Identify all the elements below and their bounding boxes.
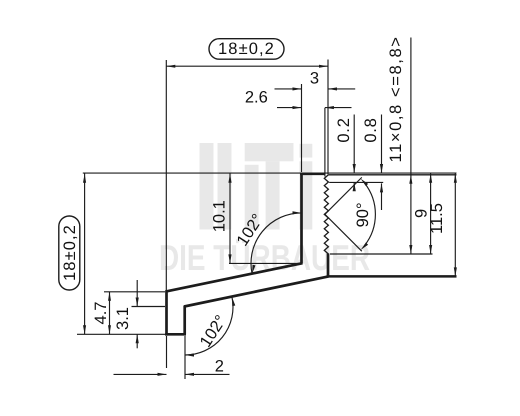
profile foot right edge (183, 306, 186, 335)
dimension line 18±0,2 top (166, 65, 328, 67)
arrow 102° lower end up (232, 297, 235, 306)
extension line foot left below (166, 336, 168, 368)
svg-text:0.2: 0.2 (335, 117, 353, 142)
arrow 18 top left (166, 65, 175, 68)
profile bottom edge (327, 275, 457, 278)
label 2 (215, 358, 224, 376)
arrow 11.5 bottom (454, 267, 457, 276)
arrow 11×0,8 top (409, 175, 412, 184)
svg-text:4.7: 4.7 (92, 302, 110, 325)
dimension line 18±0,2 left (84, 173, 86, 334)
svg-text:11×0,8 <=8,8>: 11×0,8 <=8,8> (387, 36, 405, 163)
arc 90° (365, 183, 376, 245)
dimension line 0.2 upper (353, 115, 355, 173)
svg-text:10.1: 10.1 (211, 200, 229, 232)
profile lower diagonal edge (184, 276, 328, 306)
arrow 2.6 right (325, 106, 334, 109)
arrow 18 top right (319, 65, 328, 68)
svg-text:0.8: 0.8 (362, 117, 380, 142)
extension line serration valley vertical (324, 108, 326, 177)
label 3.1 (114, 307, 132, 330)
svg-text:3: 3 (310, 70, 319, 88)
label 102° lower (197, 312, 231, 350)
svg-text:18±0,2: 18±0,2 (61, 224, 79, 281)
profile step edge below serration (327, 254, 330, 278)
dimension line 3.1 upper (136, 280, 138, 307)
arrow 0.2 up (353, 182, 356, 191)
svg-text:2: 2 (215, 358, 224, 376)
capsule frame 18±0,2 left (59, 216, 80, 290)
dimension line 2 left part (114, 373, 167, 375)
label 11×0,8 (=8,8) (387, 36, 405, 163)
arc 102° upper (251, 213, 302, 274)
label 102° upper (233, 211, 267, 249)
dimension line 9 (430, 173, 432, 254)
arrow 18 left top (83, 174, 86, 183)
profile serrated edge 11 teeth (324, 175, 328, 254)
extension line serration bottom (330, 253, 433, 255)
arrow 11.5 top (454, 174, 457, 183)
watermark logo (200, 143, 313, 230)
watermark text DIE TUERBAUER (159, 237, 370, 278)
label 10.1 (211, 200, 229, 232)
label 18±0,2 top (218, 40, 275, 58)
label 90° (354, 202, 372, 227)
arrow 18 left bottom (83, 325, 86, 334)
arrow 3.1 down (136, 298, 139, 307)
extension line top surface (83, 172, 457, 174)
dimension line 3.1 lower (136, 334, 138, 348)
svg-text:2.6: 2.6 (245, 88, 268, 106)
arrow 0.8 down (380, 164, 383, 173)
arrow 90° upper (361, 179, 369, 187)
arrow 3 left (293, 87, 302, 90)
extension line 4.7 top (104, 291, 165, 293)
extension line serration tip vertical (327, 60, 329, 175)
arrow 90° lower (361, 243, 369, 251)
arrow 4.7 top (108, 292, 111, 301)
label 9 (413, 209, 431, 218)
arrow 4.7 bottom (108, 325, 111, 334)
profile upper diagonal edge (166, 263, 303, 291)
arrow 0.8 up (380, 183, 383, 192)
angle leg 90° lower (325, 214, 362, 251)
dimension line 2.6 left part (277, 107, 302, 109)
profile foot bottom edge (165, 333, 186, 336)
extension line 10.1 bottom (229, 262, 300, 264)
dimension line 4.7 (109, 292, 111, 335)
label 3 (310, 70, 319, 88)
dimension line 11.5 (454, 173, 456, 276)
svg-text:11.5: 11.5 (428, 203, 446, 234)
extension line foot left vertical (165, 60, 167, 292)
label 18±0,2 left (61, 224, 79, 281)
profile lip left edge (300, 173, 303, 264)
arrow 10.1 bottom (228, 254, 231, 263)
profile lip top edge (300, 172, 325, 175)
svg-text:3.1: 3.1 (114, 307, 132, 330)
dimension line 0.2 lower stub (353, 182, 355, 190)
arrow 9 top (429, 174, 432, 183)
label 4.7 (92, 302, 110, 325)
arrow 11×0,8 bottom (409, 245, 412, 254)
profile foot left edge (165, 291, 168, 336)
dimension line 3 right part (328, 88, 355, 90)
arrow 10.1 top (228, 174, 231, 183)
arrow 102° lower end left (185, 353, 194, 356)
arrow 2 right (185, 373, 194, 376)
dimension line 0.8 upper (381, 115, 383, 173)
extension line foot bottom left (77, 333, 171, 335)
profile right top surface (328, 174, 456, 176)
extension line 3.1 top (132, 306, 166, 308)
dimension line 3 left part (275, 88, 302, 90)
extension line lip left vertical (301, 84, 303, 172)
svg-text:90°: 90° (354, 202, 372, 227)
arrow 2 left (158, 373, 167, 376)
label 2.6 (245, 88, 268, 106)
arrow 2.6 left (293, 106, 302, 109)
arc 102° lower (185, 297, 233, 355)
arrow 0.2 down (353, 164, 356, 173)
dimension line 11×0,8 (410, 38, 412, 255)
dimension line 2 right part (185, 373, 230, 375)
arrow 102° upper end left (252, 265, 255, 274)
extension line 0.8 groove depth (329, 181, 383, 183)
label 0.2 (335, 117, 353, 142)
label 11.5 (428, 203, 446, 234)
arrow 3.1 up (136, 334, 139, 343)
capsule frame 18±0,2 top (209, 39, 284, 60)
svg-text:18±0,2: 18±0,2 (218, 40, 275, 58)
dimension line 2.6 right part (325, 107, 352, 109)
extension line foot right below (184, 336, 186, 379)
dimension line 0.8 lower stub (381, 183, 383, 210)
arrow 9 bottom (429, 245, 432, 254)
arrow 3 right (328, 87, 337, 90)
arrow 102° upper end right (293, 211, 302, 214)
dimension line 10.1 (229, 173, 231, 263)
angle leg 90° upper (325, 177, 362, 214)
label 0.8 (362, 117, 380, 142)
